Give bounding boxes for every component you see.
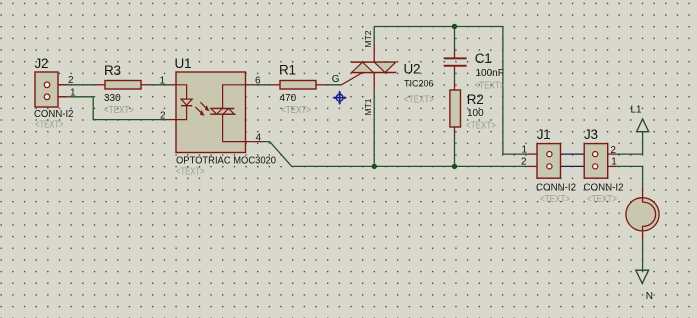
svg-text:<TEXT>: <TEXT> bbox=[281, 105, 311, 116]
wire C1 top bbox=[454, 27, 456, 51]
U1 internal triac bbox=[210, 85, 245, 142]
triac U2 bbox=[332, 30, 434, 115]
svg-text:330: 330 bbox=[104, 93, 121, 104]
svg-text:1: 1 bbox=[70, 88, 76, 99]
U1 light arrows bbox=[195, 102, 209, 116]
wire J3 pin1 to lamp bbox=[616, 166, 643, 188]
svg-text:2: 2 bbox=[160, 110, 166, 121]
svg-text:G: G bbox=[332, 74, 340, 85]
connector J1 bbox=[521, 127, 576, 205]
wire J2 pin2 to R3 bbox=[58, 84, 96, 86]
svg-text:<TEXT>: <TEXT> bbox=[466, 121, 496, 132]
wire J2 pin1 to U1 pin2 bbox=[58, 97, 167, 120]
U2 MT1 pin bbox=[373, 73, 375, 93]
svg-text:6: 6 bbox=[255, 75, 261, 86]
junction node at R2 bottom rail bbox=[452, 164, 457, 169]
svg-text:<TEXT>: <TEXT> bbox=[475, 80, 505, 91]
wire top rail bbox=[374, 27, 528, 155]
svg-text:CONN-I2: CONN-I2 bbox=[584, 183, 624, 194]
junction node at U2 MT1 bottom rail bbox=[372, 164, 377, 169]
svg-text:470: 470 bbox=[280, 93, 297, 104]
resistor R1 bbox=[271, 63, 325, 116]
wire U2 MT2 to top rail bbox=[373, 27, 375, 45]
svg-text:TIC206: TIC206 bbox=[404, 79, 434, 89]
optocoupler U1 bbox=[160, 56, 277, 178]
svg-text:2: 2 bbox=[521, 156, 527, 167]
svg-text:CONN-I2: CONN-I2 bbox=[34, 109, 74, 120]
svg-text:CONN-I2: CONN-I2 bbox=[536, 183, 576, 194]
svg-text:1: 1 bbox=[160, 75, 166, 86]
svg-text:L1: L1 bbox=[631, 105, 643, 116]
svg-text:U1: U1 bbox=[175, 56, 192, 71]
svg-text:<TEXT>: <TEXT> bbox=[35, 120, 64, 131]
svg-text:R3: R3 bbox=[104, 63, 121, 78]
svg-text:<TEXT>: <TEXT> bbox=[104, 105, 134, 116]
svg-text:MT2: MT2 bbox=[363, 30, 373, 47]
resistor R3 bbox=[96, 63, 150, 116]
U2 gate pin bbox=[342, 73, 363, 85]
svg-text:N: N bbox=[646, 291, 653, 302]
wire R1 to U2 gate bbox=[325, 84, 342, 86]
svg-text:2: 2 bbox=[610, 145, 616, 156]
terminal L1 bbox=[631, 105, 649, 132]
svg-text:R2: R2 bbox=[467, 92, 484, 107]
svg-text:100nF: 100nF bbox=[476, 68, 504, 79]
svg-text:J3: J3 bbox=[584, 127, 598, 142]
lamp bbox=[626, 188, 659, 240]
wire U2 MT1 down bbox=[373, 92, 375, 166]
wire U1 pin6 to R1 bbox=[251, 84, 271, 86]
svg-text:1: 1 bbox=[522, 145, 528, 156]
connector J2 bbox=[34, 56, 76, 131]
svg-text:R1: R1 bbox=[279, 63, 296, 78]
U1 internal LED bbox=[176, 85, 192, 120]
svg-text:<TEXT>: <TEXT> bbox=[540, 194, 570, 205]
wire U1 pin4 to bottom rail bbox=[262, 142, 528, 167]
svg-text:2: 2 bbox=[68, 75, 74, 86]
terminal N bbox=[636, 270, 653, 302]
wire lamp to N terminal bbox=[642, 240, 644, 270]
svg-text:1: 1 bbox=[611, 156, 617, 167]
svg-text:C1: C1 bbox=[475, 51, 492, 66]
svg-text:100: 100 bbox=[467, 108, 484, 119]
origin marker bbox=[332, 90, 347, 105]
wire R2 bottom to bottom rail bbox=[454, 136, 456, 166]
wire J1 to J3 interconnect bbox=[550, 154, 595, 166]
svg-text:<TEXT>: <TEXT> bbox=[587, 194, 617, 205]
wire J3 pin2 to L1 terminal bbox=[616, 132, 643, 154]
svg-text:U2: U2 bbox=[404, 62, 421, 77]
svg-text:4: 4 bbox=[256, 132, 262, 143]
svg-text:OPTOTRIAC MOC3020: OPTOTRIAC MOC3020 bbox=[176, 156, 276, 167]
U2 MT2 pin bbox=[373, 44, 375, 62]
wire C1 bottom to R2 bbox=[454, 73, 456, 82]
svg-text:J1: J1 bbox=[537, 127, 551, 142]
svg-text:MT1: MT1 bbox=[363, 98, 373, 115]
svg-text:J2: J2 bbox=[35, 56, 49, 71]
svg-text:<TEXT>: <TEXT> bbox=[176, 167, 205, 178]
svg-text:<TEXT>: <TEXT> bbox=[404, 94, 434, 105]
wire R3 to U1 pin1 bbox=[150, 84, 167, 86]
capacitor C1 bbox=[444, 50, 505, 91]
connector J3 bbox=[584, 127, 624, 205]
junction node at C1 top rail bbox=[452, 24, 457, 29]
resistor R2 bbox=[450, 82, 496, 136]
